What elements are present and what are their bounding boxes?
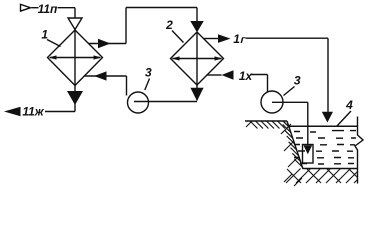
svg-text:4: 4: [345, 98, 353, 112]
svg-text:2: 2: [165, 18, 173, 32]
svg-text:3: 3: [294, 74, 301, 88]
svg-text:г: г: [239, 34, 247, 46]
svg-text:1х: 1х: [239, 69, 254, 83]
svg-text:1: 1: [41, 28, 48, 42]
svg-text:11ж: 11ж: [22, 105, 44, 119]
svg-text:11п: 11п: [38, 2, 58, 16]
svg-text:3: 3: [145, 66, 152, 80]
